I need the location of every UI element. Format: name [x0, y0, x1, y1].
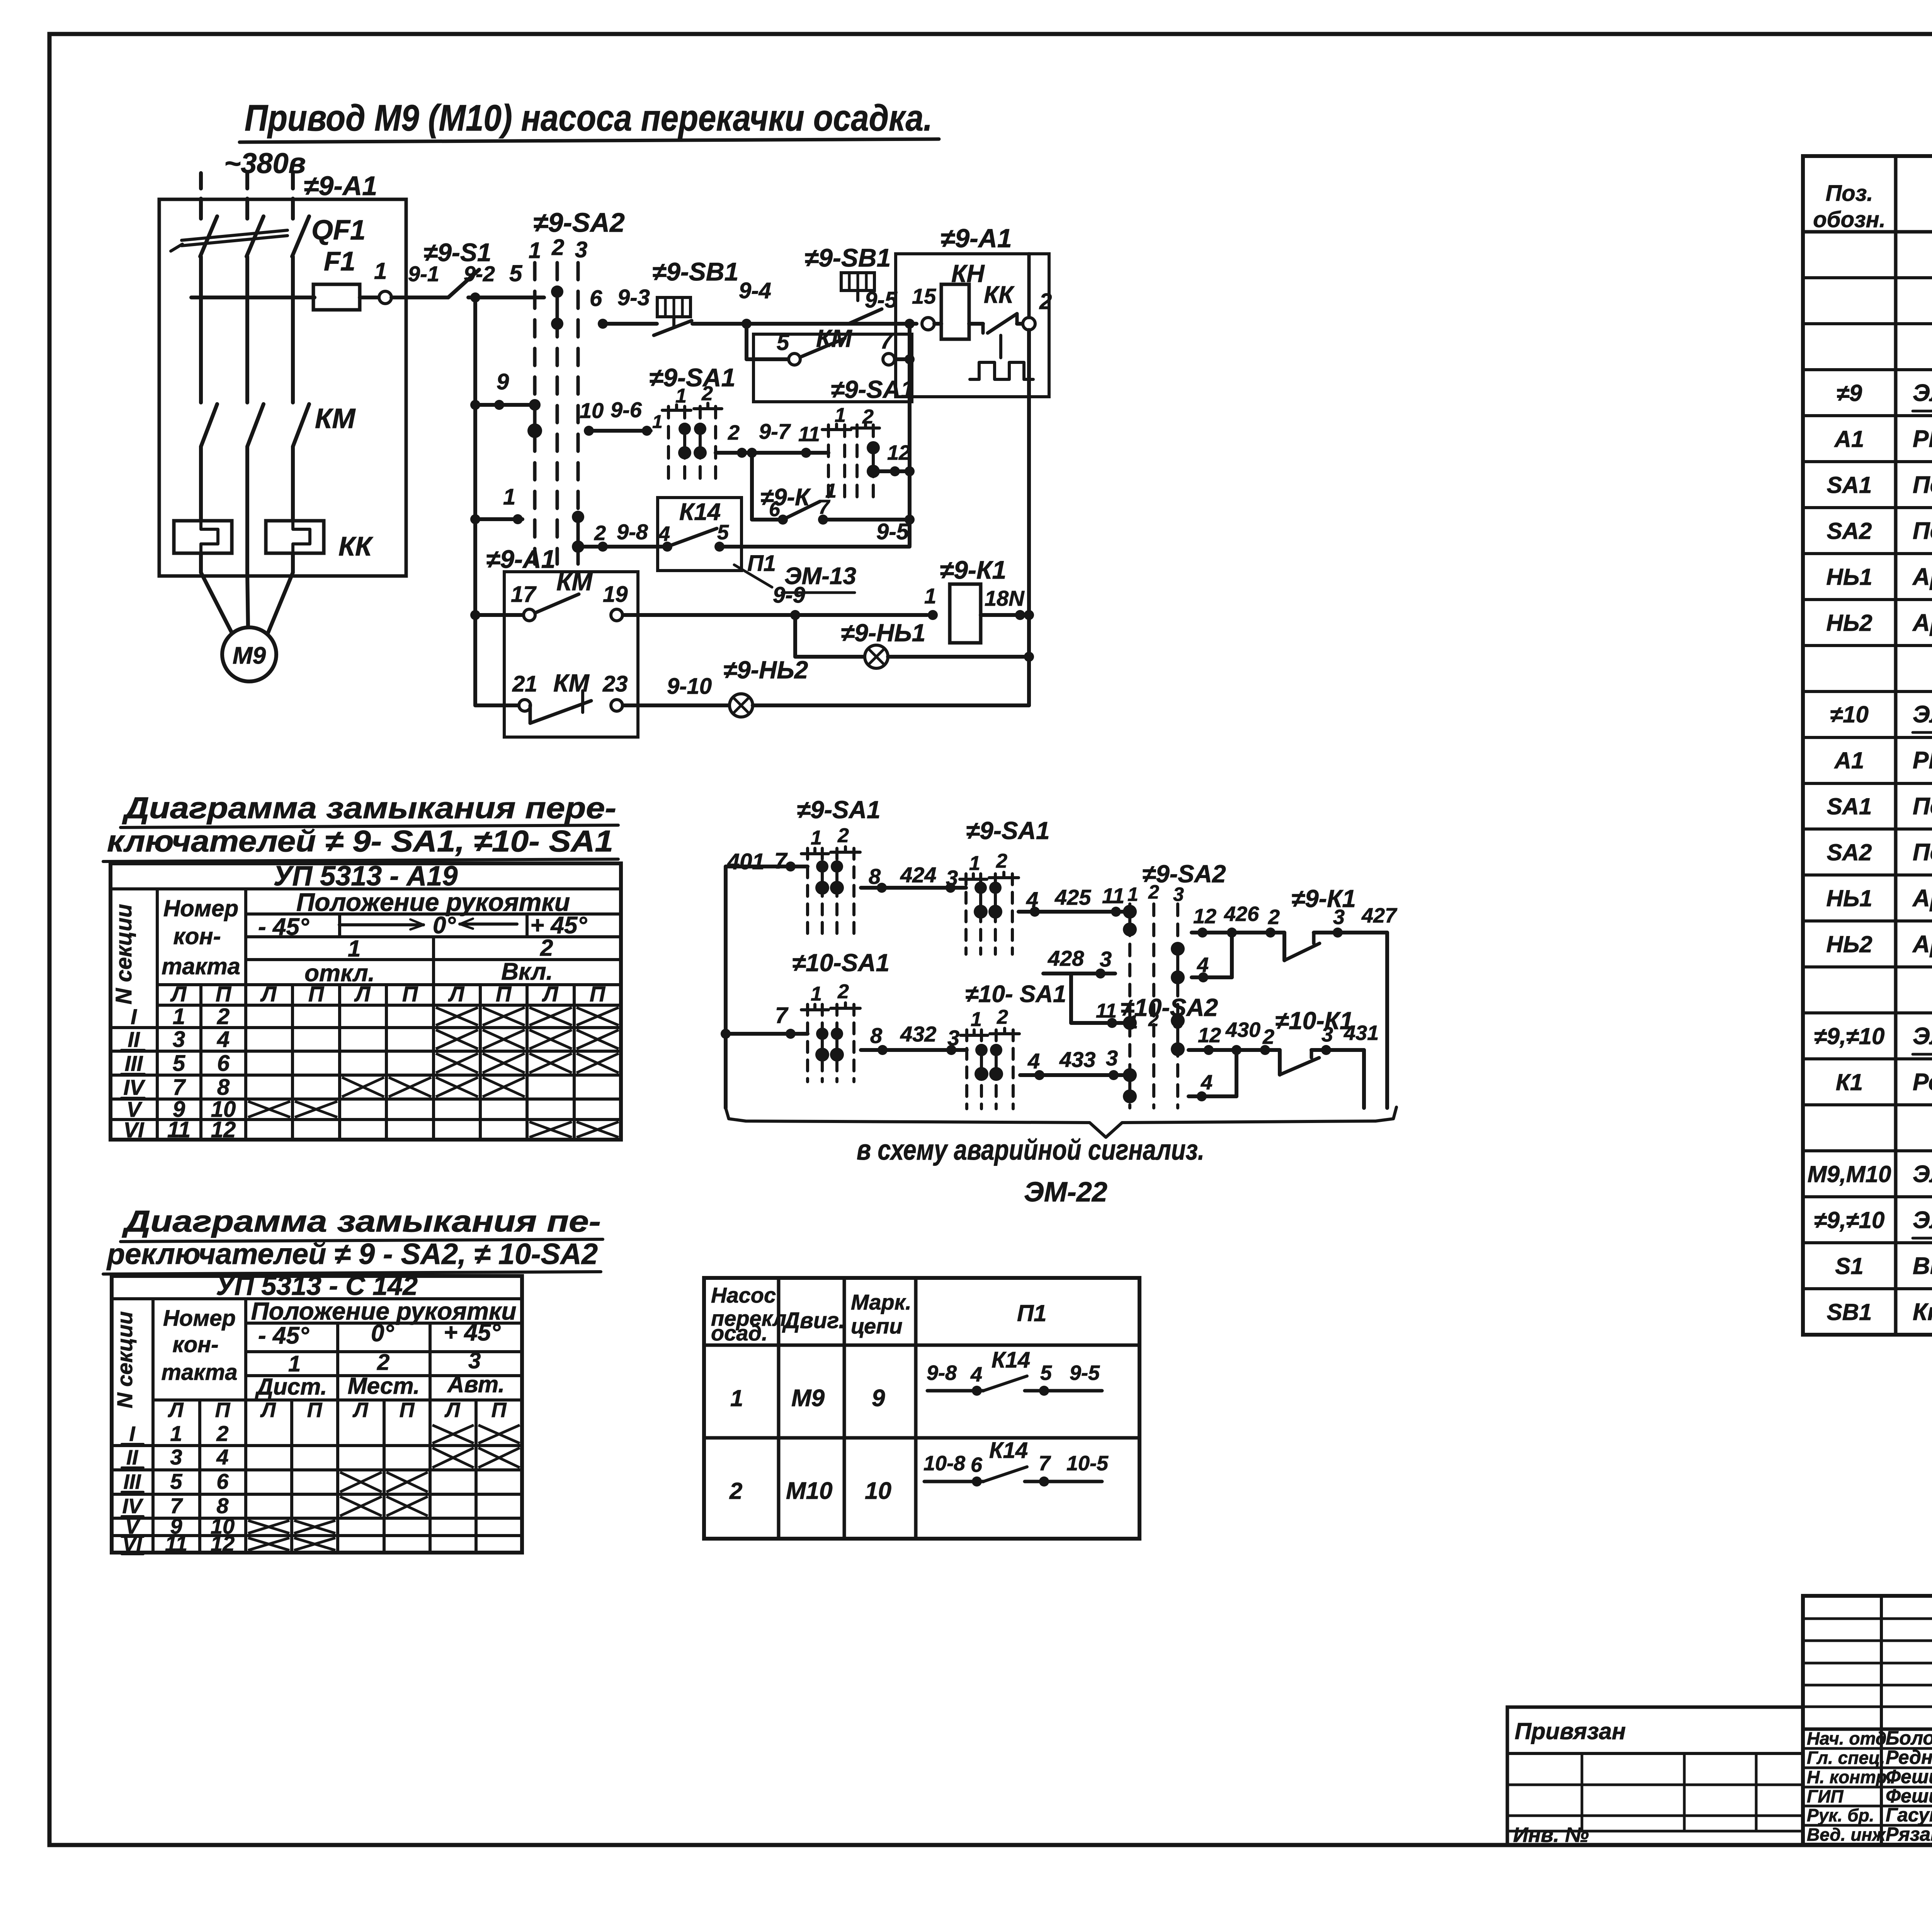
svg-text:2: 2 — [1039, 289, 1052, 314]
motor М9 — [201, 573, 233, 634]
svg-text:Гл. спец.: Гл. спец. — [1807, 1748, 1885, 1768]
svg-text:SA1: SA1 — [1827, 472, 1872, 498]
svg-text:М10: М10 — [786, 1478, 833, 1504]
svg-text:9-5: 9-5 — [1070, 1361, 1100, 1385]
parts table grid — [1803, 156, 1932, 1335]
svg-text:4: 4 — [1197, 953, 1209, 977]
svg-text:≠9-К1: ≠9-К1 — [1291, 885, 1356, 912]
svg-text:9-10: 9-10 — [667, 674, 712, 699]
svg-text:Двиг.: Двиг. — [782, 1308, 845, 1333]
svg-text:426: 426 — [1224, 902, 1259, 926]
svg-text:III: III — [125, 1051, 143, 1075]
svg-text:Инв. №: Инв. № — [1513, 1823, 1589, 1847]
svg-text:12: 12 — [887, 441, 910, 464]
svg-text:Рязанова: Рязанова — [1886, 1823, 1932, 1845]
svg-text:- 45°: - 45° — [258, 1322, 310, 1349]
svg-text:430: 430 — [1225, 1018, 1260, 1041]
svg-text:≠9: ≠9 — [1837, 380, 1862, 406]
svg-text:2: 2 — [1148, 1010, 1159, 1030]
svg-text:12: 12 — [211, 1117, 236, 1142]
svg-text:Элементы управл. эл/дв. М10: Элементы управл. эл/дв. М10 — [1913, 701, 1932, 728]
svg-text:N секции: N секции — [111, 904, 136, 1004]
right bus — [1027, 254, 1031, 318]
svg-text:НЬ1: НЬ1 — [1826, 564, 1872, 590]
svg-text:III: III — [123, 1470, 141, 1493]
svg-text:23: 23 — [602, 671, 628, 697]
left extension (Привязан / Инв №) — [1507, 1707, 1803, 1845]
table П1 grid — [704, 1278, 1139, 1539]
svg-text:Переключатель УП5313-С142У3 ре: Переключатель УП5313-С142У3 рев. — [1913, 518, 1932, 544]
svg-text:Арматура ЛС53 U 220В цвет к: Арматура ЛС53 U 220В цвет красн. — [1912, 885, 1932, 912]
svg-text:Переключатель УП5313-А19 У3 р: Переключатель УП5313-А19 У3 рев. — [1913, 793, 1932, 820]
svg-text:Нач. отд: Нач. отд — [1807, 1728, 1886, 1748]
svg-text:VI: VI — [124, 1118, 145, 1142]
svg-text:П: П — [590, 982, 606, 1006]
svg-text:Диаграмма замыкания пере-: Диаграмма замыкания пере- — [122, 791, 616, 825]
svg-text:8: 8 — [217, 1075, 230, 1100]
svg-text:21: 21 — [512, 671, 537, 697]
svg-text:4: 4 — [217, 1027, 230, 1052]
svg-text:Авт.: Авт. — [447, 1371, 505, 1397]
svg-text:Л: Л — [542, 982, 559, 1006]
svg-text:II: II — [128, 1027, 140, 1052]
wire 12 — [873, 469, 910, 473]
svg-text:Л: Л — [352, 1398, 369, 1422]
svg-text:5: 5 — [1040, 1361, 1052, 1385]
svg-text:КМ: КМ — [553, 669, 590, 697]
svg-text:Насос: Насос — [711, 1283, 776, 1307]
svg-text:10: 10 — [580, 398, 604, 423]
svg-text:≠9-SA1: ≠9-SA1 — [797, 796, 881, 824]
svg-text:9-7: 9-7 — [759, 419, 791, 443]
svg-text:2: 2 — [540, 935, 553, 961]
svg-text:17: 17 — [511, 582, 537, 607]
svg-text:3: 3 — [1106, 1046, 1118, 1070]
svg-text:≠9-А1: ≠9-А1 — [304, 171, 377, 201]
svg-text:Поз.: Поз. — [1826, 181, 1873, 206]
svg-text:3: 3 — [1333, 906, 1345, 929]
svg-text:обозн.: обозн. — [1813, 207, 1886, 232]
svg-text:1: 1 — [652, 412, 663, 432]
svg-text:КК: КК — [984, 282, 1015, 308]
svg-text:1: 1 — [348, 936, 361, 962]
svg-text:РБУ5101 – 13А2В: РБУ5101 – 13А2В — [1913, 747, 1932, 774]
svg-text:РБУ 5101 – 13А2В: РБУ 5101 – 13А2В — [1913, 426, 1932, 452]
svg-text:Электродвигатель АО2-42-4: Электродвигатель АО2-42-4 — [1913, 1161, 1932, 1188]
wire 9-6 — [586, 429, 651, 433]
svg-text:2: 2 — [997, 1006, 1008, 1028]
svg-text:К1: К1 — [1836, 1069, 1863, 1095]
svg-text:1: 1 — [503, 484, 515, 510]
svg-text:3: 3 — [173, 1027, 185, 1052]
svg-text:15: 15 — [912, 284, 936, 308]
svg-text:3: 3 — [1173, 883, 1184, 905]
SA2 contacts (≠10) col3 — [1176, 1021, 1179, 1049]
svg-text:7: 7 — [775, 1003, 789, 1028]
SA2 contacts (≠10) col1 — [1128, 1075, 1131, 1096]
svg-text:П: П — [402, 982, 418, 1006]
svg-text:такта: такта — [161, 1360, 237, 1385]
svg-text:9-1: 9-1 — [408, 262, 439, 286]
svg-text:≠9-SA1: ≠9-SA1 — [649, 363, 735, 392]
svg-text:18N: 18N — [985, 586, 1025, 610]
svg-text:≠9-SA1: ≠9-SA1 — [966, 817, 1050, 844]
svg-text:432: 432 — [900, 1022, 936, 1046]
svg-text:≠9-А1: ≠9-А1 — [940, 224, 1012, 253]
svg-text:КМ: КМ — [816, 324, 852, 352]
svg-text:11: 11 — [1096, 1000, 1117, 1022]
svg-text:F1: F1 — [324, 246, 355, 276]
right vertical (431) — [1362, 1050, 1366, 1108]
svg-text:7: 7 — [1039, 1452, 1051, 1475]
svg-text:Номер: Номер — [163, 895, 238, 921]
svg-text:≠9-НЬ2: ≠9-НЬ2 — [723, 656, 808, 684]
contactor КМ main contacts — [201, 404, 217, 447]
svg-text:9-5: 9-5 — [876, 519, 909, 544]
svg-text:НЬ2: НЬ2 — [1826, 610, 1872, 636]
svg-text:2: 2 — [217, 1004, 230, 1029]
SA2 contact (col3) — [577, 517, 580, 547]
svg-text:≠9-SB1: ≠9-SB1 — [804, 243, 891, 272]
wire 1 branch — [475, 517, 522, 521]
svg-text:П1: П1 — [1017, 1300, 1047, 1326]
svg-text:1: 1 — [811, 983, 822, 1005]
svg-text:2: 2 — [701, 382, 713, 405]
svg-text:Арматура ЛС53 U220В цвет кр: Арматура ЛС53 U220В цвет красн. — [1912, 564, 1932, 590]
svg-text:Л: Л — [167, 1398, 184, 1422]
svg-text:10-5: 10-5 — [1066, 1452, 1109, 1475]
svg-text:6: 6 — [971, 1453, 983, 1476]
terminal 1 — [379, 291, 391, 304]
svg-text:5: 5 — [170, 1469, 182, 1493]
wire phase L1 — [199, 173, 203, 216]
svg-text:401: 401 — [727, 849, 765, 874]
svg-text:Элементы управл. эл/дв. М9: Элементы управл. эл/дв. М9 — [1913, 380, 1932, 406]
svg-text:SA1: SA1 — [1827, 793, 1872, 819]
lamp ≠9-HL2 — [730, 694, 753, 717]
svg-text:II: II — [126, 1446, 138, 1469]
svg-text:кон-: кон- — [172, 1332, 218, 1357]
svg-text:≠9-SB1: ≠9-SB1 — [652, 257, 738, 286]
svg-text:6: 6 — [590, 286, 602, 311]
svg-text:≠9,≠10: ≠9,≠10 — [1814, 1207, 1885, 1233]
svg-text:П: П — [492, 1398, 507, 1422]
svg-text:Фешин: Фешин — [1886, 1766, 1932, 1787]
svg-text:2: 2 — [996, 850, 1007, 872]
svg-text:Переключатель УП5313-А19У3 рев: Переключатель УП5313-А19У3 рев. — [1913, 472, 1932, 498]
svg-text:≠9-SA1: ≠9-SA1 — [831, 375, 915, 403]
svg-text:УП 5313 - А19: УП 5313 - А19 — [274, 861, 458, 892]
svg-text:А1: А1 — [1834, 748, 1864, 773]
svg-text:+ 45°: + 45° — [444, 1319, 501, 1346]
svg-text:IV: IV — [124, 1075, 146, 1099]
svg-text:433: 433 — [1059, 1047, 1095, 1072]
svg-text:Привязан: Привязан — [1515, 1718, 1626, 1744]
node on bus — [470, 292, 480, 302]
svg-text:Л: Л — [170, 982, 187, 1006]
svg-text:Фешин: Фешин — [1886, 1785, 1932, 1807]
svg-text:А1: А1 — [1834, 426, 1864, 452]
svg-text:9-4: 9-4 — [739, 278, 771, 303]
svg-text:УП 5313 - С 142: УП 5313 - С 142 — [216, 1271, 418, 1301]
svg-text:19: 19 — [603, 582, 628, 607]
svg-text:10-8: 10-8 — [923, 1452, 965, 1475]
closure crosses table 2 — [432, 1425, 474, 1443]
svg-text:≠9-К1: ≠9-К1 — [940, 556, 1006, 584]
svg-text:М9: М9 — [233, 642, 266, 669]
SA2 contact (col1) 9 — [533, 405, 537, 431]
svg-text:1: 1 — [374, 258, 387, 284]
svg-text:6: 6 — [769, 498, 781, 521]
svg-text:Гасумянц: Гасумянц — [1886, 1804, 1932, 1826]
svg-text:5: 5 — [173, 1051, 185, 1076]
svg-text:427: 427 — [1361, 904, 1398, 927]
heater symbol below КК — [999, 335, 1002, 358]
svg-text:VI: VI — [122, 1532, 142, 1556]
svg-text:Реле ПЭ21-7У3 U ~220в: Реле ПЭ21-7У3 U ~220в — [1913, 1069, 1932, 1096]
wire 9-5 vertical (seal loop) — [908, 324, 912, 545]
svg-text:Вкл.: Вкл. — [501, 958, 553, 985]
panel boundary box ≠9-А1 (power section) — [159, 199, 406, 576]
svg-text:Вед. инж: Вед. инж — [1807, 1825, 1886, 1845]
svg-text:Арматура ЛС53 U 220В цвет з: Арматура ЛС53 U 220В цвет зелен — [1912, 931, 1932, 958]
label П1 with leader — [734, 565, 772, 587]
svg-text:Л: Л — [260, 982, 277, 1006]
closure crosses table 1 — [436, 1007, 478, 1025]
svg-text:ЭМ-13: ЭМ-13 — [784, 563, 856, 590]
svg-text:428: 428 — [1048, 946, 1084, 970]
svg-text:Н. контр.: Н. контр. — [1807, 1767, 1892, 1787]
wire 9-7 — [716, 451, 828, 455]
svg-text:1: 1 — [1128, 883, 1138, 905]
svg-text:П1: П1 — [747, 551, 776, 576]
svg-text:НЬ1: НЬ1 — [1826, 885, 1872, 911]
svg-text:2: 2 — [551, 235, 564, 260]
svg-text:2: 2 — [1262, 1025, 1274, 1048]
contact КМ 21-23 (NC) — [475, 703, 519, 707]
svg-text:Мест.: Мест. — [348, 1373, 420, 1399]
svg-text:4: 4 — [1027, 1049, 1040, 1073]
svg-text:12: 12 — [1198, 1024, 1221, 1047]
svg-text:КК: КК — [338, 531, 374, 561]
svg-text:11: 11 — [165, 1531, 187, 1556]
svg-text:SA2: SA2 — [1827, 839, 1872, 865]
svg-text:12: 12 — [1193, 905, 1216, 928]
svg-text:SB1: SB1 — [1827, 1299, 1872, 1325]
svg-text:5: 5 — [509, 260, 523, 286]
svg-text:ключателей ≠ 9- SA1, ≠10- SA: ключателей ≠ 9- SA1, ≠10- SA1 — [107, 824, 613, 858]
svg-text:2: 2 — [837, 980, 849, 1003]
svg-text:≠9,≠10: ≠9,≠10 — [1814, 1023, 1885, 1049]
thermal relay КК heaters — [174, 521, 232, 553]
svg-text:К14: К14 — [992, 1347, 1030, 1373]
svg-text:3: 3 — [1100, 947, 1112, 971]
svg-text:11: 11 — [798, 423, 820, 446]
svg-text:Арматура ЛС53 U220В цвет зе: Арматура ЛС53 U220В цвет зелен. — [1912, 610, 1932, 636]
svg-text:П: П — [215, 1398, 231, 1422]
svg-text:Переключатель УП5313-С142У3 р: Переключатель УП5313-С142У3 рев. — [1913, 839, 1932, 866]
SA2 contact col1 (≠9) — [1128, 912, 1131, 929]
svg-text:≠10- SA1: ≠10- SA1 — [965, 981, 1066, 1007]
svg-text:9-6: 9-6 — [611, 398, 642, 422]
svg-text:2: 2 — [837, 824, 849, 847]
svg-text:в схему аварийной сигнализ.: в схему аварийной сигнализ. — [857, 1134, 1204, 1166]
svg-text:1: 1 — [969, 852, 980, 875]
signature rows — [1803, 1747, 1932, 1750]
svg-text:Выключатель ВГПМ2-10: Выключатель ВГПМ2-10 — [1913, 1253, 1932, 1279]
svg-text:НЬ2: НЬ2 — [1826, 931, 1872, 957]
svg-text:Редникин: Редникин — [1886, 1747, 1932, 1768]
svg-text:0°: 0° — [371, 1320, 394, 1347]
svg-text:2: 2 — [1148, 881, 1159, 903]
svg-text:≠9-SA2: ≠9-SA2 — [533, 207, 625, 238]
svg-text:9-8: 9-8 — [617, 520, 648, 544]
contact КМ 17-19 — [475, 613, 524, 617]
svg-text:≠10-К1: ≠10-К1 — [1275, 1007, 1354, 1035]
svg-text:2: 2 — [728, 421, 740, 444]
svg-text:6: 6 — [216, 1469, 229, 1493]
wire phase L2 — [245, 173, 249, 216]
svg-text:Л: Л — [448, 982, 465, 1006]
upper revision rows — [1803, 1617, 1932, 1620]
box КМ aux (17-19 / 21-23) — [504, 572, 638, 737]
svg-text:Привод М9 (М10) насоса пер: Привод М9 (М10) насоса перекачки осадка. — [245, 97, 932, 139]
svg-text:Рук. бр.: Рук. бр. — [1807, 1805, 1874, 1825]
svg-text:Дист.: Дист. — [255, 1374, 327, 1400]
svg-text:≠9-НЬ1: ≠9-НЬ1 — [841, 619, 925, 647]
svg-text:≠10: ≠10 — [1830, 702, 1869, 727]
brace to alarm circuit — [726, 1107, 1396, 1137]
svg-text:0°: 0° — [433, 912, 456, 939]
svg-text:9-3: 9-3 — [617, 285, 650, 310]
svg-text:К14: К14 — [989, 1438, 1028, 1463]
svg-text:SA2: SA2 — [1827, 518, 1872, 544]
svg-text:9-8: 9-8 — [927, 1361, 957, 1385]
svg-text:Л: Л — [444, 1398, 461, 1422]
relay contact К14 (box П1) — [658, 498, 742, 571]
svg-text:П: П — [307, 1398, 323, 1422]
svg-text:Элементы управл. эл/дв М9,М1: Элементы управл. эл/дв М9,М10 — [1913, 1207, 1932, 1233]
title block outline — [1803, 1596, 1932, 1845]
svg-text:Элементы управл. эл/дв. М9,М: Элементы управл. эл/дв. М9,М10 — [1913, 1023, 1932, 1050]
svg-text:S1: S1 — [1835, 1253, 1863, 1279]
svg-text:1: 1 — [173, 1004, 185, 1029]
svg-text:2: 2 — [594, 522, 606, 545]
svg-text:Болотов: Болотов — [1886, 1727, 1932, 1749]
svg-text:12: 12 — [211, 1531, 235, 1556]
svg-text:9-2: 9-2 — [464, 262, 495, 286]
svg-text:7: 7 — [880, 328, 894, 353]
wire 4 stub (≠10) — [1235, 1050, 1238, 1096]
SA2 contact col1 (428) — [1123, 1016, 1137, 1030]
svg-text:6: 6 — [217, 1051, 230, 1076]
svg-text:М9: М9 — [791, 1385, 825, 1412]
box around КМ aux contact — [753, 334, 912, 402]
svg-text:кон-: кон- — [173, 923, 221, 949]
svg-text:К14: К14 — [679, 499, 721, 525]
wire 9 branch — [475, 403, 535, 407]
svg-text:Диаграмма замыкания пе-: Диаграмма замыкания пе- — [122, 1204, 601, 1238]
svg-text:3: 3 — [575, 237, 587, 262]
svg-text:Л: Л — [354, 982, 371, 1006]
svg-text:9-5: 9-5 — [865, 287, 898, 313]
svg-text:≠9-А1: ≠9-А1 — [486, 545, 555, 573]
svg-text:9: 9 — [497, 369, 509, 394]
svg-text:9: 9 — [872, 1385, 885, 1412]
svg-text:осад.: осад. — [711, 1321, 768, 1345]
svg-text:1: 1 — [529, 238, 541, 263]
wire 4 stub (≠9) — [1230, 933, 1234, 977]
svg-text:1: 1 — [730, 1385, 743, 1411]
svg-text:4: 4 — [216, 1445, 228, 1469]
svg-text:2: 2 — [377, 1350, 389, 1375]
svg-text:ЭМ-22: ЭМ-22 — [1024, 1177, 1107, 1208]
svg-text:10: 10 — [865, 1478, 891, 1504]
svg-text:I: I — [131, 1004, 137, 1029]
svg-text:I: I — [129, 1422, 135, 1446]
svg-text:QF1: QF1 — [311, 215, 366, 246]
svg-text:7: 7 — [774, 848, 788, 873]
wire 9-4 — [692, 322, 917, 326]
svg-text:≠9-К: ≠9-К — [760, 484, 811, 511]
svg-text:425: 425 — [1054, 885, 1091, 909]
svg-text:1: 1 — [170, 1421, 182, 1446]
svg-text:≠10-SA1: ≠10-SA1 — [792, 949, 889, 977]
svg-text:7: 7 — [173, 1075, 186, 1100]
wire control bus (left) — [473, 297, 477, 705]
table УП5313-С142 grid — [112, 1276, 522, 1553]
svg-text:431: 431 — [1344, 1021, 1379, 1045]
svg-text:1: 1 — [971, 1008, 982, 1031]
svg-text:ГИП: ГИП — [1807, 1786, 1844, 1806]
svg-text:такта: такта — [162, 953, 240, 979]
wire 9-10 — [623, 703, 730, 707]
svg-text:4: 4 — [1201, 1071, 1213, 1094]
svg-text:реключателей ≠ 9 - SA2, ≠ 10: реключателей ≠ 9 - SA2, ≠ 10-SA2 — [106, 1238, 598, 1271]
right vertical (427) — [1385, 933, 1389, 1108]
svg-text:1: 1 — [811, 827, 822, 849]
svg-text:М9,М10: М9,М10 — [1808, 1161, 1891, 1187]
svg-text:3: 3 — [170, 1445, 182, 1469]
svg-text:1: 1 — [924, 584, 936, 608]
lamp ≠9-HL1 — [865, 645, 888, 668]
svg-text:2: 2 — [729, 1478, 742, 1504]
svg-text:11: 11 — [1102, 883, 1124, 908]
svg-text:11: 11 — [167, 1117, 190, 1142]
svg-text:2: 2 — [216, 1421, 228, 1446]
contact КМ (5-7 seal-in) — [747, 357, 788, 361]
svg-text:цепи: цепи — [851, 1314, 903, 1338]
svg-text:3: 3 — [468, 1348, 481, 1373]
svg-text:- 45°: - 45° — [258, 914, 310, 940]
svg-text:4: 4 — [970, 1363, 982, 1386]
svg-text:424: 424 — [900, 863, 936, 887]
svg-text:Л: Л — [260, 1398, 276, 1422]
wire 9-8 — [578, 545, 666, 549]
relay box ≠9-А1 (КН/КК) — [896, 254, 1049, 397]
svg-text:Марк.: Марк. — [851, 1290, 912, 1314]
svg-text:2: 2 — [1268, 906, 1280, 929]
svg-text:N секции: N секции — [112, 1311, 137, 1408]
svg-text:8: 8 — [870, 1023, 883, 1048]
svg-text:КМ: КМ — [315, 403, 356, 434]
wire to КМ aux (vertical drop) — [745, 324, 748, 359]
SA2 contact col3 (≠9) — [1176, 949, 1179, 977]
SA2 contact (col2) 5->6 — [556, 292, 559, 324]
svg-text:+ 45°: + 45° — [530, 912, 587, 939]
svg-text:3: 3 — [1321, 1023, 1333, 1046]
svg-text:КМ: КМ — [556, 568, 593, 596]
